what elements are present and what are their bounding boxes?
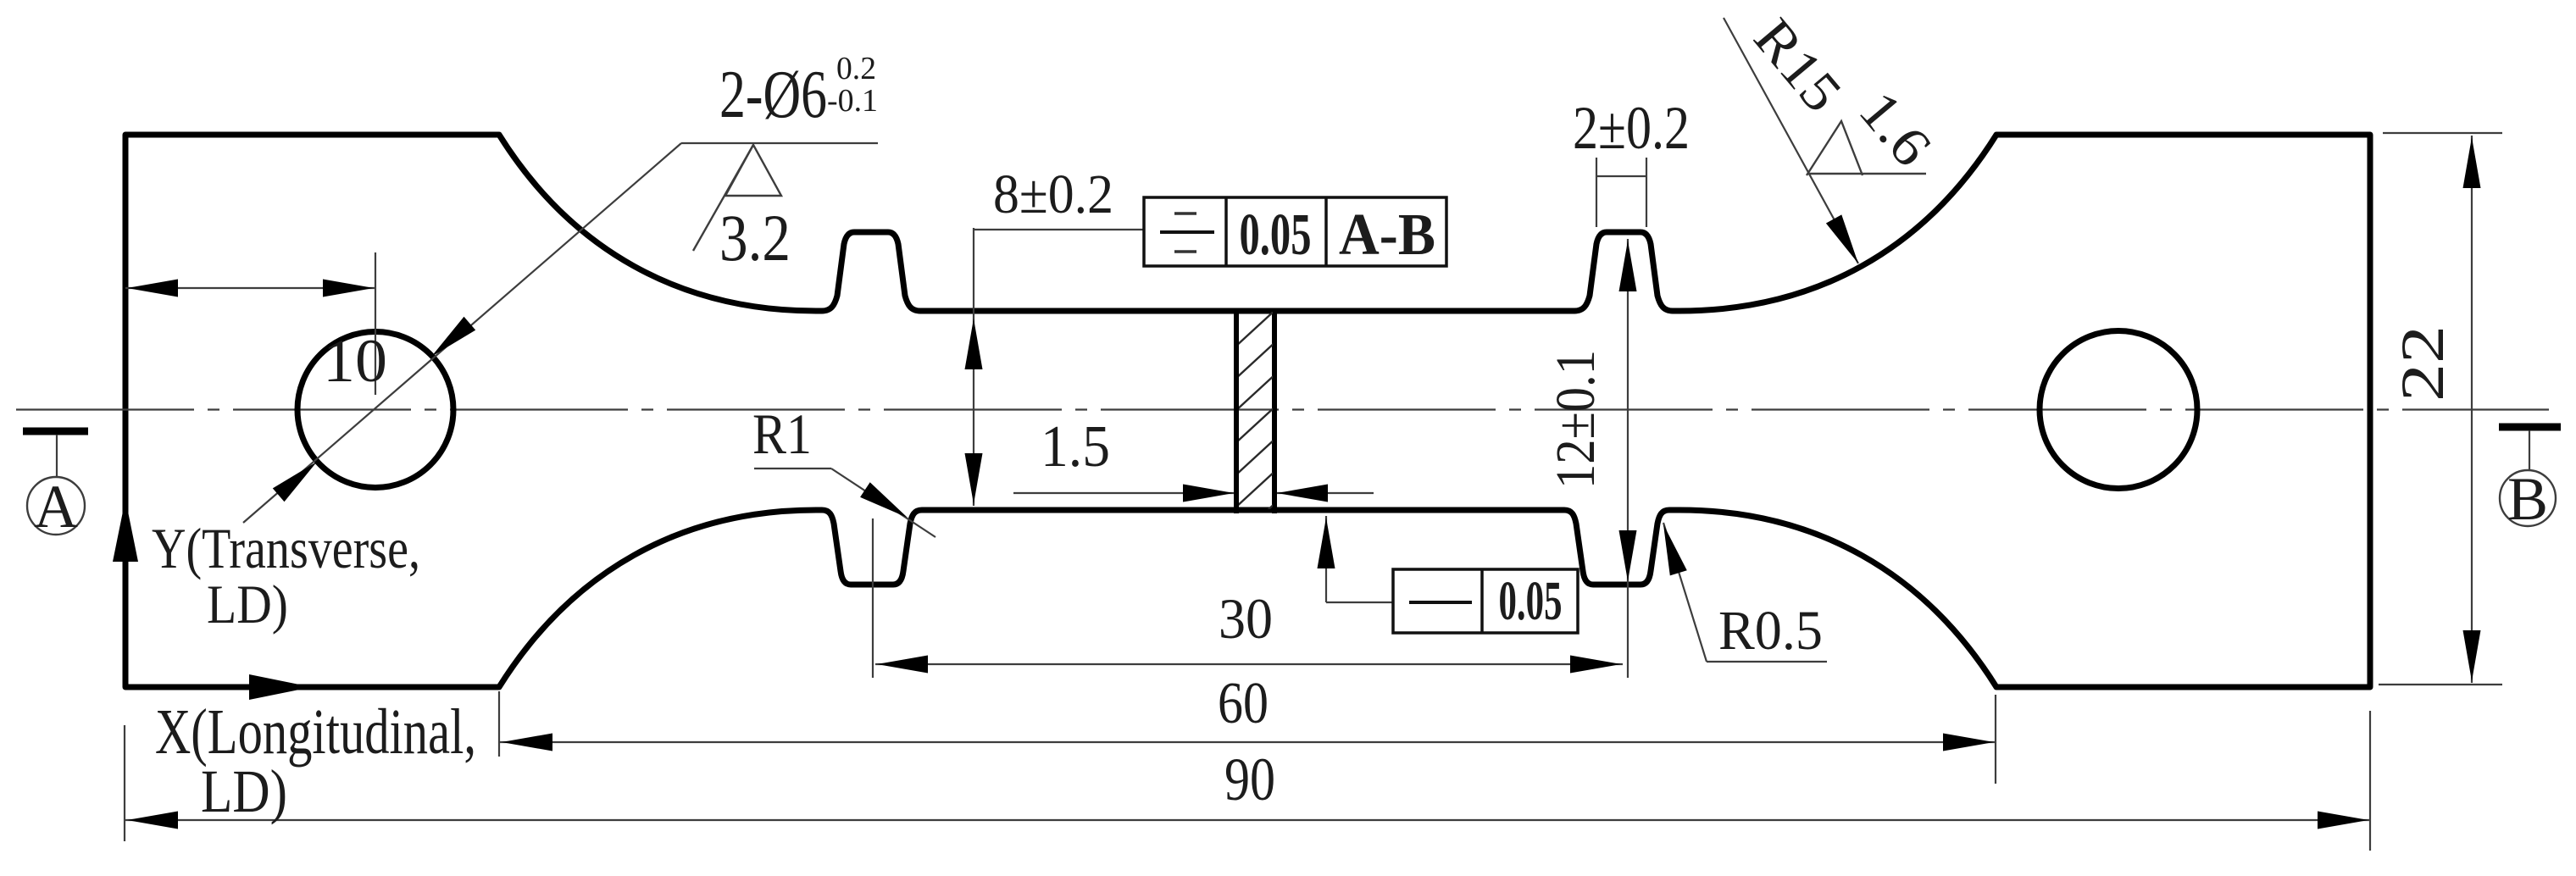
- dim 90 line: [125, 819, 2370, 821]
- dim 22 extension top: [2383, 132, 2502, 134]
- radius R1 leader: [754, 468, 831, 469]
- svg-text:0.2: 0.2: [836, 51, 876, 86]
- datum A circle: [27, 477, 85, 535]
- datum B stem: [2529, 430, 2530, 470]
- datum A tick: [23, 428, 88, 435]
- dim 10 line: [125, 287, 375, 289]
- roughness symbol 3.2 triangle: [725, 145, 781, 196]
- section hatch bar line left: [1234, 308, 1239, 513]
- dim 2±0.2 extension lines: [1596, 158, 1597, 227]
- radius R15 leader: [1724, 18, 1858, 263]
- hole callout leader shelf: [681, 142, 878, 144]
- dim 90 extension left: [124, 725, 125, 841]
- datum B tick: [2499, 424, 2561, 431]
- dim 8±0.2 elbow to FCF: [974, 229, 1144, 230]
- datum B circle: [2500, 470, 2556, 526]
- dim 8±0.2 vertical line: [973, 228, 974, 506]
- svg-text:B: B: [2507, 465, 2548, 533]
- dim 30 extension left: [872, 518, 874, 678]
- dim 60 extension left: [498, 691, 500, 757]
- dim 2±0.2 line: [1596, 175, 1646, 177]
- svg-text:90: 90: [1224, 746, 1275, 813]
- Y axis arrowhead: [113, 499, 138, 562]
- specimen outline: [125, 135, 2370, 687]
- datum A stem: [56, 435, 58, 477]
- svg-text:8±0.2: 8±0.2: [993, 164, 1113, 225]
- svg-text:A-B: A-B: [1339, 202, 1435, 268]
- X axis arrowhead: [249, 674, 312, 700]
- dim 60 line: [500, 741, 1996, 743]
- svg-text:A: A: [34, 473, 78, 541]
- radius R0.5 leader: [1663, 523, 1707, 662]
- svg-text:0.05: 0.05: [1499, 570, 1563, 632]
- flatness FCF frame: [1393, 569, 1578, 633]
- svg-text:1.5: 1.5: [1041, 414, 1110, 480]
- svg-text:12±0.1: 12±0.1: [1545, 350, 1607, 489]
- centerline: [16, 408, 2549, 410]
- svg-text:22: 22: [2389, 325, 2457, 402]
- straightness symbol: [1409, 601, 1472, 604]
- hole callout diagonal leader: [243, 143, 681, 523]
- svg-text:LD): LD): [207, 574, 288, 635]
- svg-text:-0.1: -0.1: [827, 83, 878, 119]
- dim 1.5 left tail: [1013, 492, 1234, 494]
- roughness symbol 3.2 slash: [693, 145, 753, 251]
- right hole circle: [2040, 331, 2197, 489]
- svg-text:3.2: 3.2: [719, 201, 791, 274]
- svg-text:60: 60: [1218, 671, 1269, 736]
- symmetry symbol: [1174, 212, 1196, 215]
- svg-text:0.05: 0.05: [1240, 202, 1312, 268]
- svg-text:30: 30: [1219, 586, 1273, 651]
- dim 12±0.1 line: [1627, 239, 1629, 678]
- svg-text:Y(Transverse,: Y(Transverse,: [152, 516, 420, 580]
- dim 22 line: [2471, 136, 2473, 683]
- dim 60 extension right: [1995, 695, 1996, 784]
- svg-text:2±0.2: 2±0.2: [1573, 94, 1690, 162]
- left hole vertical centermark: [375, 252, 376, 395]
- roughness 1.6 symbol: [1807, 121, 1863, 175]
- left hole circle: [297, 332, 453, 488]
- dim 22 extension bottom: [2379, 684, 2502, 685]
- dim 90 extension right: [2369, 711, 2371, 851]
- FCF symmetry frame: [1144, 197, 1446, 266]
- svg-text:LD): LD): [201, 757, 287, 825]
- flatness FCF leader: [1325, 516, 1327, 602]
- svg-text:2-Ø6: 2-Ø6: [719, 58, 827, 132]
- svg-text:R0.5: R0.5: [1718, 600, 1823, 662]
- svg-text:R1: R1: [752, 402, 812, 466]
- svg-text:10: 10: [323, 327, 387, 395]
- dim 1.5 right tail: [1277, 492, 1374, 494]
- section hatch bar line right: [1272, 308, 1277, 513]
- dim 30 line: [875, 663, 1623, 665]
